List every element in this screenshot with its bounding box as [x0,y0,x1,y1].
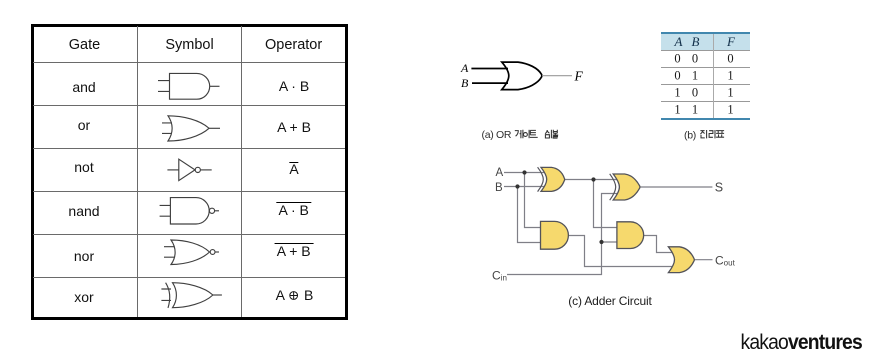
table outer frame [31,24,348,320]
table horizontal line (not/nand) [33,191,345,192]
hangul: 진 [700,130,706,138]
column divider [713,34,714,118]
header F [727,34,735,50]
wire AND1 out to OR [568,236,672,267]
svg-text:F: F [574,68,584,83]
row label: and [72,79,95,95]
wire B [472,82,508,84]
table horizontal line (or/not) [33,148,345,149]
hangul: 게 [515,130,523,138]
table horizontal line (and/or) [33,105,345,106]
gate XOR1 [538,167,565,191]
hangul: 트 [530,130,538,137]
table horizontal line (nor/xor) [33,277,345,278]
hangul: 표 [716,131,724,138]
hangul: 리 [709,130,715,138]
symbol: AND gate [158,73,220,99]
truth row 0 1 1 [674,69,680,84]
operator: nand overline [276,202,311,218]
symbol: OR gate [162,116,220,141]
header B [692,34,700,50]
symbol: NOT gate [167,159,211,180]
header: Operator [265,37,322,53]
svg-text:B: B [495,182,503,194]
table vertical line 2 [241,26,242,317]
junction dot B [515,184,519,188]
caption (c): Adder Circuit [568,294,651,308]
truth row 0 0 0 [674,52,680,67]
row label: not [74,159,93,175]
operator: A + B [277,119,311,135]
wire Cin branch to AND2 [602,241,621,243]
symbol: NOR gate [164,240,219,265]
gate OR [668,247,694,273]
hangul: 이 [523,130,529,138]
gate XOR2 [610,174,640,200]
svg-text:A: A [460,61,469,75]
symbol: NAND gate [160,198,219,224]
svg-text:Cin: Cin [492,269,507,283]
wire Cin to XOR2 [507,194,618,275]
operator: A · B [279,78,309,94]
row label: nand [68,203,99,219]
row label: nor [74,248,94,264]
caption (a): "(a) OR 게이트 심볼" [478,126,568,142]
svg-text:(b): (b) [684,129,696,141]
header: Gate [69,37,100,53]
table vertical line 1 [137,26,138,317]
svg-text:Cout: Cout [715,253,736,267]
wire XOR1 out to XOR2 [565,179,619,181]
operator: nor overline [274,243,313,259]
wire B [504,186,546,188]
header A [675,34,683,50]
wire A branch to AND1 [525,173,545,228]
wire AND2 out to OR [643,236,672,253]
row label: xor [74,289,93,305]
header: Symbol [165,37,213,53]
bottom blue line [661,118,750,121]
junction dot XOR1 out [591,177,595,181]
svg-text:B: B [461,76,469,90]
table horizontal line (header/and) [33,62,345,63]
caption (b): "(b) 진리표" [682,126,732,142]
wire A [471,68,508,70]
header band [661,32,750,34]
wire XOR1 out branch to AND2 [594,180,621,228]
gate AND2 [617,222,644,249]
wire XOR2 out to S [640,186,712,188]
kakaoventures logo [740,331,861,355]
truth row 1 1 1 [674,103,680,118]
wire OR out to Cout [694,259,712,261]
operator: A xor B [276,287,314,303]
hangul: 심 [545,130,551,138]
hangul: 볼 [553,130,559,138]
wire A [504,172,546,174]
junction dot Cin [599,240,603,244]
truth row 1 0 1 [674,86,680,101]
row lines [661,50,750,51]
operator: A-bar [289,161,298,177]
svg-text:(a) OR: (a) OR [482,129,512,141]
svg-text:A: A [496,167,504,179]
OR gate body [502,62,542,90]
output wire [542,75,572,77]
junction dot A [522,170,526,174]
wire B branch to AND1 [518,187,545,243]
row label: or [78,117,90,133]
symbol: XOR gate [161,283,222,308]
svg-text:S: S [715,181,723,195]
table horizontal line (nand/nor) [33,234,345,235]
gate AND1 [541,221,569,249]
